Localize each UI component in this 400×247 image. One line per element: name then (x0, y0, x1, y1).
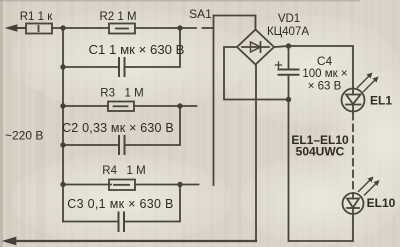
svg-text:SA1: SA1 (189, 7, 212, 21)
svg-text:C4: C4 (317, 54, 333, 68)
svg-text:С1 1 мк × 630 В: С1 1 мк × 630 В (89, 43, 185, 57)
svg-text:VD1: VD1 (278, 13, 300, 25)
svg-text:R1 1 к: R1 1 к (20, 11, 53, 23)
svg-text:100 мк ×: 100 мк × (302, 68, 347, 80)
svg-text:С3 0,1 мк × 630 В: С3 0,1 мк × 630 В (67, 197, 173, 211)
svg-text:С2 0,33 мк × 630 В: С2 0,33 мк × 630 В (62, 121, 174, 135)
svg-text:EL1: EL1 (370, 94, 392, 108)
svg-text:R2 1 M: R2 1 M (99, 11, 136, 23)
svg-text:R3 1 M: R3 1 M (100, 88, 143, 100)
svg-text:~220 В: ~220 В (5, 129, 43, 143)
svg-text:504UWC: 504UWC (296, 145, 345, 159)
svg-text:× 63 В: × 63 В (308, 81, 342, 93)
svg-text:R4 1 M: R4 1 M (102, 165, 145, 177)
svg-text:EL10: EL10 (367, 196, 396, 210)
svg-text:КЦ407А: КЦ407А (267, 26, 309, 38)
